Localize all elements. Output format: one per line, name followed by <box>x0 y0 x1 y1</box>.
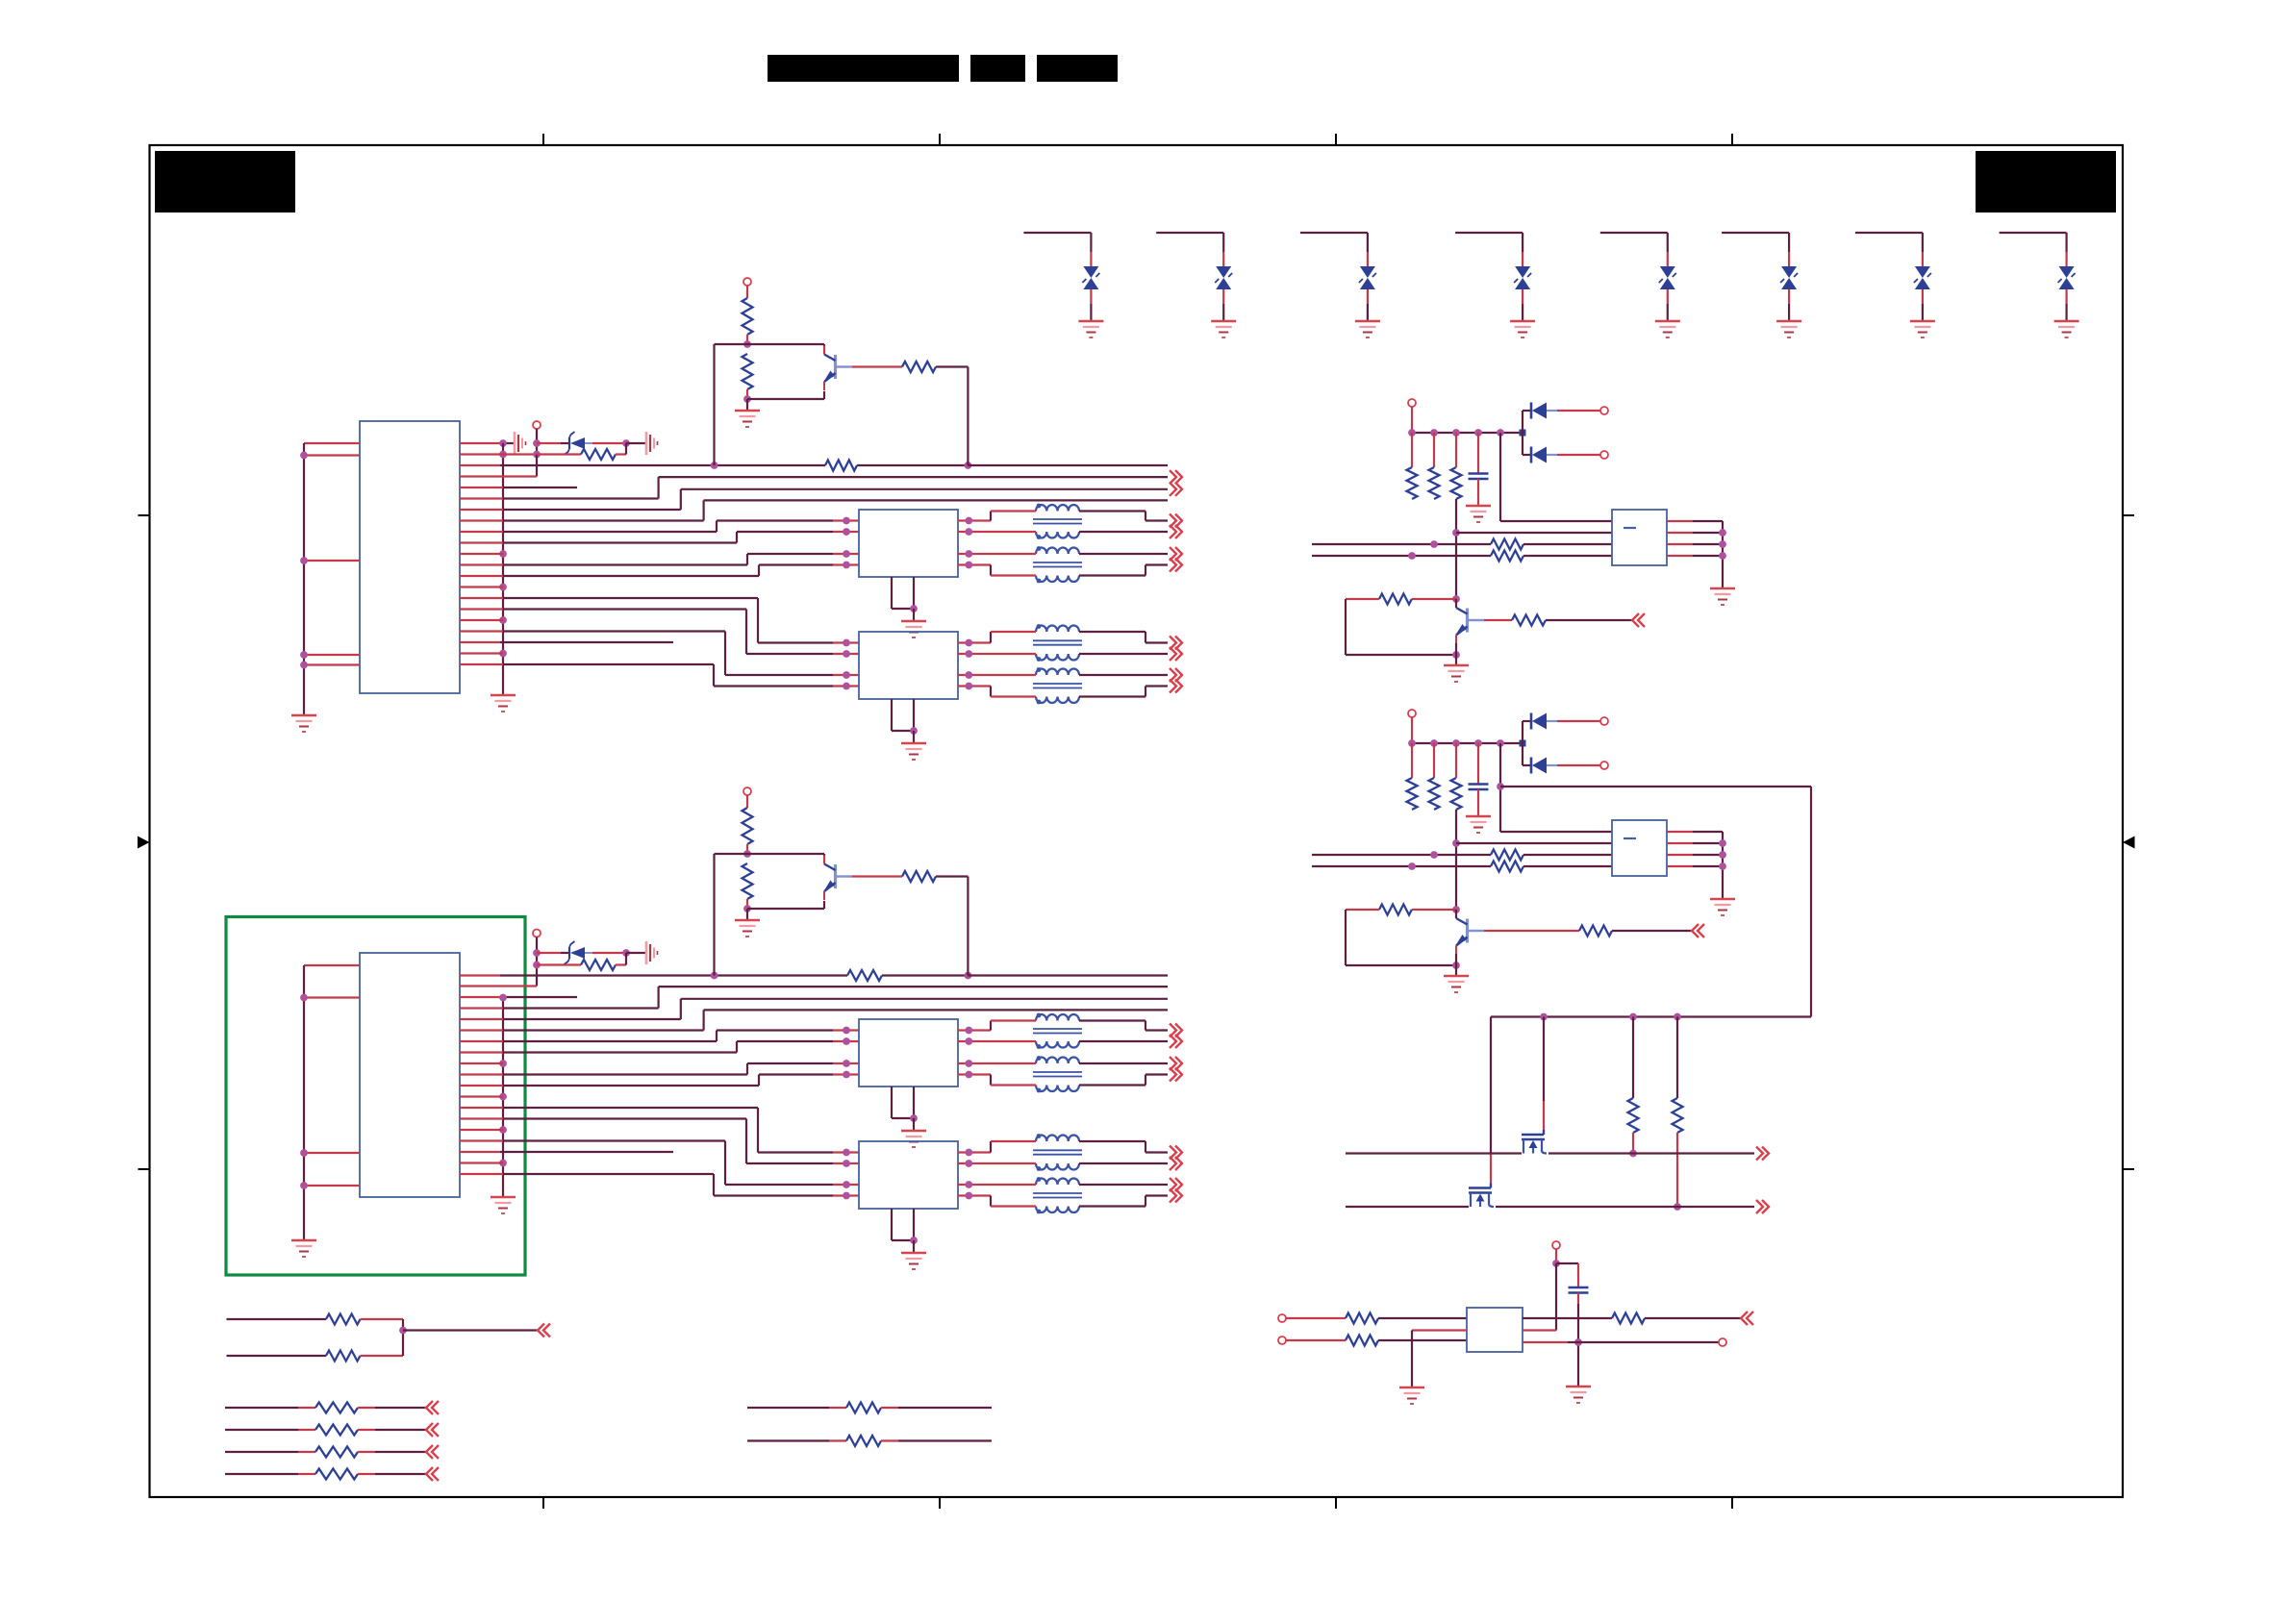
resistor R-esd1 wire <box>537 453 581 455</box>
C1 ground wire <box>1477 789 1479 816</box>
wire feed filter1 pin1 <box>460 517 859 532</box>
capacitor C1 wire <box>1477 743 1479 784</box>
Q1 base wire and resistor <box>837 362 968 465</box>
input pin P-r1 <box>1278 1314 1346 1322</box>
wire row j6 stepped long line <box>460 999 1168 1019</box>
wire row i13 ground spur <box>460 586 503 587</box>
ground (C-reg) <box>1566 1387 1591 1403</box>
FL3 right pin wires <box>958 1027 991 1079</box>
TVS diode D1 with wire and ground <box>1023 233 1103 337</box>
diode D-b <box>1531 758 1557 774</box>
TVS diode D3 with wire and ground <box>1300 233 1380 337</box>
filter block FL4 <box>859 1141 958 1209</box>
pull resistor R1 (vertical) <box>1407 433 1418 499</box>
wire rail to block pin2 and base node <box>1452 810 1612 910</box>
Q base resistor and input arrow <box>1469 613 1645 627</box>
input pin P-r2 <box>1278 1337 1346 1344</box>
transistor Q (right) <box>1455 599 1467 644</box>
Q2 base wire and resistor <box>837 871 968 976</box>
pull resistor R2 (vertical) <box>1429 433 1440 499</box>
FL2 right pin wires <box>958 639 991 690</box>
wire R-in2 to U3 <box>1378 1339 1467 1341</box>
wire row j7 stepped long line <box>460 1010 1168 1030</box>
wire rail to block pin1 <box>1500 433 1612 521</box>
series resistor row b1 with arrow <box>225 1401 439 1414</box>
R-esd2 right wire <box>616 953 626 965</box>
frame tick marks <box>138 134 2135 1509</box>
frame center arrow left <box>138 837 150 849</box>
connector pin P1 (open circle) <box>533 421 541 429</box>
IC block U <box>1612 510 1667 565</box>
wire supply node to cap <box>1556 1263 1578 1287</box>
FL3 bottom stubs to ground <box>892 1087 918 1131</box>
left pin wires and ground bus of J2 <box>300 965 360 1240</box>
wire row j16 ground spur <box>460 1129 503 1131</box>
ground (C1) <box>1466 506 1491 522</box>
capacitor C1 wire <box>1477 433 1479 473</box>
signal row into block y=566 <box>1312 539 1612 550</box>
TVS diode D5 with wire and ground <box>1600 233 1680 337</box>
wire rail to block pin2 and base node <box>1452 499 1612 599</box>
MOSFET M1 <box>1522 1130 1547 1154</box>
top-right redaction box <box>1976 151 2116 212</box>
connector pin P (right circuit) <box>1408 399 1416 433</box>
connector pin P2 (open circle) <box>533 930 541 937</box>
green highlight box <box>226 917 525 1276</box>
paired sense resistors with arrow <box>227 1314 551 1362</box>
resistor R-in2 <box>1346 1336 1378 1346</box>
wire row i5 stepped long line <box>460 470 1182 498</box>
resistor R-esd2 wire <box>537 963 581 965</box>
capacitor C1 <box>1469 785 1489 790</box>
zener diode ZD1 row <box>537 442 569 444</box>
signal row into block y=578 <box>1312 862 1612 872</box>
U3 pin2 wire to ground <box>1412 1331 1467 1388</box>
wire feed filter3 pin1 <box>460 1027 859 1041</box>
border frame <box>150 145 2124 1497</box>
transistor Q2 <box>823 856 835 901</box>
regulator block U3 <box>1467 1308 1523 1352</box>
filter block FL1 <box>859 510 958 577</box>
series resistor row b3 with arrow <box>225 1445 439 1459</box>
wire feed filter2 pin4 <box>460 664 859 689</box>
common-mode choke T3 with output arrows <box>991 624 1182 662</box>
wire feed filter2 pin1 <box>460 598 859 646</box>
ground bus vertical (x=523) <box>499 443 507 695</box>
wire rail to block pin1 <box>1500 743 1612 832</box>
resistor R-in1 <box>1346 1313 1378 1324</box>
ground (J2 left bus) <box>291 1240 316 1257</box>
supply rail wire with junctions <box>1408 429 1525 437</box>
common-mode choke T8 with output arrows <box>991 1177 1182 1213</box>
ground (upper x=523 bus) <box>491 695 516 712</box>
C1 ground wire <box>1477 479 1479 506</box>
common-mode choke T5 with output arrows <box>991 1013 1182 1049</box>
diode D-b <box>1531 447 1557 463</box>
top-left redaction box <box>155 151 295 212</box>
IC block U <box>1612 820 1667 876</box>
connector J1 (DVI input) <box>360 421 460 693</box>
ground (block right) <box>1710 899 1735 915</box>
loop branch wire <box>1497 783 1811 1016</box>
signal wire 2 (M2 source) with arrow <box>1346 1200 1769 1213</box>
lower ground bus vertical (x=523) <box>499 994 507 1197</box>
U3 output row wire <box>1523 1317 1612 1319</box>
FL4 bottom stubs to ground <box>892 1209 918 1253</box>
capacitor C-reg <box>1569 1287 1589 1293</box>
resistor R-esd1 <box>581 449 616 460</box>
ground (FL3) <box>901 1131 926 1147</box>
feedback resistor loop <box>1346 905 1460 969</box>
node pin1 shield wire <box>460 439 515 447</box>
diode D-a output wire and pin <box>1557 717 1608 725</box>
shield bars symbol 1 <box>515 432 526 455</box>
resistor R-m1 (vertical) <box>1628 1017 1639 1158</box>
MOSFET M2 <box>1469 1184 1494 1208</box>
transistor Q1 <box>823 346 835 391</box>
ground (U3 pin2) <box>1399 1387 1424 1404</box>
TVS diode D4 with wire and ground <box>1455 233 1535 337</box>
diode pair connecting wire <box>1523 411 1531 455</box>
wire to shield bars 3 <box>626 952 646 954</box>
ground (J1 left bus) <box>291 715 316 732</box>
wire feed filter2 pin2 <box>460 610 859 658</box>
wire feed filter3 pin2 <box>460 1037 859 1052</box>
ground (block right) <box>1710 588 1735 605</box>
common-mode choke T2 with output arrows <box>991 546 1182 583</box>
wire feed filter1 pin3 <box>460 550 859 564</box>
signal row into block y=566 <box>1312 850 1612 861</box>
diode D-a <box>1531 713 1557 730</box>
ZD1 to node wire <box>592 439 630 447</box>
wire row i19 ground spur <box>460 652 503 654</box>
M1 gate riser <box>1543 1017 1545 1131</box>
ESD riser wire <box>533 429 541 458</box>
R-esd1 right wire <box>616 443 626 455</box>
wire pin2 to ESD node <box>460 453 537 455</box>
wire feed filter4 pin1 <box>460 1108 859 1156</box>
wire feed filter1 pin2 <box>460 528 859 542</box>
wire feed filter3 pin3 <box>460 1060 859 1074</box>
diode D-a output wire and pin <box>1557 407 1608 414</box>
pull resistor R2 (vertical) <box>1429 743 1440 810</box>
resistor R-m2 (vertical) <box>1673 1017 1683 1211</box>
wire row j10 ground spur <box>460 1062 503 1064</box>
wire row i6 stepped long line <box>460 483 1182 510</box>
ground (Q emitter) <box>1444 665 1469 682</box>
diode pair connecting wire <box>1523 721 1531 765</box>
ground (lower x=523 bus) <box>491 1197 516 1213</box>
ground (FL1) <box>901 621 926 637</box>
ground (Q emitter) <box>1444 976 1469 992</box>
pull resistor R3 (vertical) <box>1451 743 1462 810</box>
connector pin P (right circuit) <box>1408 710 1416 743</box>
title block redaction 3 <box>1037 55 1118 82</box>
wire row j2 long bus (with R series) <box>460 970 1168 981</box>
common-mode choke T4 with output arrows <box>991 667 1182 704</box>
left pin wires and ground bus of J1 <box>300 443 360 715</box>
filter block FL2 <box>859 632 958 699</box>
TVS diode D6 with wire and ground <box>1722 233 1801 337</box>
series resistor row m1 <box>747 1403 992 1413</box>
title block redaction 1 <box>768 55 959 82</box>
zener diode ZD2 <box>565 941 593 964</box>
M2 gate riser <box>1490 1017 1492 1184</box>
zener diode ZD2 row <box>537 952 569 954</box>
wire row3 long bus (with R series) <box>460 461 1168 471</box>
common-mode choke T1 with output arrows <box>991 504 1182 539</box>
FL2 bottom stubs to ground <box>892 699 918 743</box>
ground (FL4) <box>901 1253 926 1269</box>
wire row i18 stub <box>460 641 673 643</box>
ESD riser wire lower <box>460 937 541 987</box>
ground (Q2 divider) <box>735 920 760 937</box>
series resistor row m2 <box>747 1436 992 1446</box>
wire feed filter3 pin4 <box>460 1071 859 1086</box>
series resistor row b2 with arrow <box>225 1423 439 1437</box>
series resistor row b4 with arrow <box>225 1467 439 1481</box>
signal wire 1 (M1 source) with arrow <box>1346 1147 1769 1161</box>
wire feed filter4 pin3 <box>460 1141 859 1188</box>
shield bars symbol 3 <box>646 941 658 964</box>
resistor R-out <box>1612 1313 1645 1324</box>
wire R-out to arrow <box>1645 1312 1753 1325</box>
FL1 bottom stubs to ground <box>892 577 918 621</box>
block right pin wires to ground <box>1667 521 1726 588</box>
Q collector wire <box>1455 599 1457 608</box>
signal row into block y=578 <box>1312 551 1612 562</box>
wire row i16 ground spur <box>460 619 503 621</box>
zener diode ZD1 <box>565 432 593 455</box>
Q emitter wire to ground <box>1455 954 1457 976</box>
wire feed filter2 pin3 <box>460 632 859 679</box>
TVS diode D8 with wire and ground <box>2000 233 2079 337</box>
ground (Q1 divider) <box>735 411 760 427</box>
C-reg lower wire <box>1574 1293 1582 1387</box>
filter block FL3 <box>859 1019 958 1087</box>
frame center arrow right <box>2123 837 2135 849</box>
U3 sense row wire to pin <box>1523 1338 1726 1346</box>
diode D-b output wire and pin <box>1557 762 1608 769</box>
common-mode choke T6 with output arrows <box>991 1056 1182 1092</box>
TVS diode D7 with wire and ground <box>1855 233 1935 337</box>
wire row j5 stepped long line <box>460 987 1168 1008</box>
FL1 right pin wires <box>958 517 991 569</box>
resistor R-esd2 <box>581 960 616 970</box>
wire supply node to U3 output pin <box>1523 1263 1556 1331</box>
capacitor C1 <box>1469 474 1489 480</box>
wire feed filter4 pin2 <box>460 1119 859 1167</box>
transistor Q1 bias network (R divider, ground) <box>715 278 825 465</box>
supply pin P-top <box>1552 1241 1560 1267</box>
wire feed filter1 pin4 <box>460 562 859 576</box>
wire row i4 net stub <box>460 487 577 488</box>
block right pin wires to ground <box>1667 832 1726 899</box>
TVS diode D2 with wire and ground <box>1156 233 1236 337</box>
Q collector wire <box>1455 910 1457 918</box>
wire row i7 stepped long line <box>460 500 1168 520</box>
supply rail wire with junctions <box>1408 739 1525 747</box>
wire to shield bars 2 <box>626 442 646 444</box>
connector J2 (DVI input) <box>360 953 460 1197</box>
wire feed filter4 pin4 <box>460 1174 859 1199</box>
pull resistor R1 (vertical) <box>1407 743 1418 810</box>
FL4 right pin wires <box>958 1149 991 1200</box>
Q emitter wire to ground <box>1455 643 1457 665</box>
wire riser to row4 <box>460 455 537 477</box>
diode D-b output wire and pin <box>1557 451 1608 459</box>
ground (FL2) <box>901 743 926 760</box>
common-mode choke T7 with output arrows <box>991 1134 1182 1171</box>
wire row i10 ground spur <box>460 553 503 555</box>
gate bus wire <box>1491 1013 1811 1021</box>
shield bars symbol 2 <box>646 432 658 455</box>
transistor Q (right) <box>1455 910 1467 955</box>
wire row j4 net stub <box>460 996 577 998</box>
wire row j19 ground spur <box>460 1162 503 1163</box>
feedback resistor loop <box>1346 594 1460 659</box>
title block redaction 2 <box>970 55 1025 82</box>
ZD2 to node wire <box>592 949 630 957</box>
wire row j13 ground spur <box>460 1095 503 1097</box>
pull resistor R3 (vertical) <box>1451 433 1462 499</box>
ground (C1) <box>1466 816 1491 833</box>
wire R-in1 to U3 <box>1378 1317 1467 1319</box>
transistor Q2 bias network (R divider, ground) <box>715 787 825 976</box>
diode D-a <box>1531 403 1557 419</box>
Q base resistor and input arrow <box>1469 924 1704 937</box>
wire row j18 stub <box>460 1151 673 1153</box>
